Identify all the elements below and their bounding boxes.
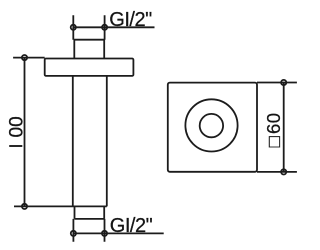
svg-text:GI/2": GI/2"	[110, 215, 153, 237]
svg-text:00: 00	[7, 116, 28, 137]
svg-text:GI/2": GI/2"	[109, 9, 152, 31]
svg-text:60: 60	[263, 113, 284, 134]
svg-text:□: □	[263, 136, 284, 147]
